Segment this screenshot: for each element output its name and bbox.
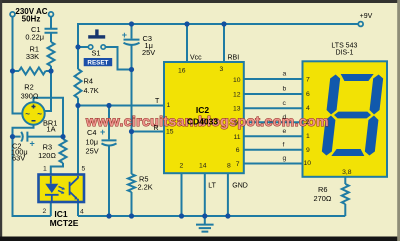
wire IC1 pin2 [50, 203, 52, 216]
wire R6 bottom to rail [344, 204, 346, 216]
svg-text:0.22μ: 0.22μ [25, 33, 44, 42]
resistor R6 270ohm [342, 184, 349, 204]
svg-text:16: 16 [178, 67, 186, 74]
svg-text:c: c [283, 100, 287, 107]
svg-text:13: 13 [233, 106, 241, 113]
wire BR1 minus to left rail [13, 125, 51, 216]
svg-text:RBI: RBI [228, 55, 240, 62]
wire IC1 pin4 to rail [77, 203, 79, 216]
terminal +9V [358, 22, 363, 27]
svg-text:9: 9 [234, 120, 238, 127]
node clock R4/pin5 [75, 103, 80, 108]
svg-text:2: 2 [306, 119, 310, 126]
wire R3 bottom to IC1 pin1 [51, 163, 63, 174]
wire segment f [244, 149, 303, 151]
resistor R5 2.2K [128, 174, 135, 192]
node pin2 rail [179, 213, 184, 218]
resistor R1 33K [48, 42, 55, 66]
wire R5 bottom to ground rail [131, 192, 133, 216]
svg-text:7: 7 [306, 76, 310, 83]
wire BR1 plus output to R3 node [34, 98, 64, 137]
svg-text:a: a [283, 71, 287, 78]
svg-text:14: 14 [199, 163, 207, 170]
wire IC2 pin2 to rail [181, 173, 183, 216]
svg-text:RESET: RESET [87, 59, 108, 66]
svg-text:e: e [283, 128, 287, 135]
resistor R3 120ohm [60, 139, 67, 163]
wire display pin 3,8 to R6 [344, 177, 346, 184]
wire AC left terminal down [13, 17, 23, 114]
capacitor C1 0.22u [45, 29, 58, 33]
wire segment e [244, 135, 303, 137]
svg-text:3,8: 3,8 [342, 169, 352, 176]
svg-text:9: 9 [306, 147, 310, 154]
svg-text:10: 10 [304, 160, 312, 167]
terminal 230V AC left [10, 12, 15, 17]
wire C2 left stub [13, 136, 21, 138]
resistor R4 4.7K [75, 47, 82, 98]
svg-text:7: 7 [236, 161, 240, 168]
LED inside IC1 [45, 184, 58, 193]
wire top +9V rail [78, 24, 359, 45]
svg-text:d: d [283, 114, 287, 121]
wire C4 top [108, 106, 110, 140]
RESET label box [84, 58, 113, 66]
ground symbol [196, 216, 214, 232]
svg-text:1: 1 [306, 133, 310, 140]
photo border frame [0, 0, 400, 3]
svg-text:63V: 63V [12, 154, 25, 163]
svg-text:CD4033: CD4033 [187, 117, 218, 127]
wire C3 bottom reset line [131, 45, 133, 174]
svg-text:~: ~ [37, 110, 42, 119]
IC2 CD4033 box [164, 62, 244, 173]
node R2 left [10, 68, 15, 73]
svg-text:3: 3 [220, 66, 224, 73]
svg-text:120Ω: 120Ω [38, 151, 56, 160]
terminal 230V AC right [49, 12, 54, 17]
wire C1 to R1 [50, 33, 52, 42]
wire reset line to IC2 pin15 [132, 131, 165, 133]
svg-text:2.2K: 2.2K [138, 182, 153, 191]
svg-text:15: 15 [166, 129, 174, 136]
wire clock line to IC2 pin1 [78, 105, 164, 107]
node C4 top [106, 103, 111, 108]
svg-text:25V: 25V [142, 48, 155, 57]
svg-text:IC2: IC2 [196, 105, 210, 115]
wire Vcc pin16 [186, 24, 188, 62]
left isolated rail (mains side) [10, 21, 231, 218]
node C2 left [10, 134, 15, 139]
svg-text:1A: 1A [47, 125, 56, 134]
wire ground rail right side [78, 215, 345, 217]
svg-text:R2: R2 [24, 83, 33, 92]
wire R3 top [62, 137, 64, 139]
svg-text:5: 5 [82, 166, 86, 173]
capacitor C3 1u 25V [124, 40, 140, 45]
svg-text:GND: GND [232, 182, 248, 189]
wire AC right terminal to C1 [50, 17, 52, 28]
node R3/C2/BR1+ [60, 134, 65, 139]
capacitor C4 10u 25V [102, 140, 117, 145]
svg-text:+9V: +9V [360, 13, 373, 20]
wire IC2 pin14 LT to rail [204, 173, 206, 216]
opto-coupler IC1 MCT2E box [39, 175, 85, 203]
node pin8 rail [225, 213, 230, 218]
wire segment a [244, 78, 303, 80]
node C4 rail [106, 213, 111, 218]
svg-text:LT: LT [208, 182, 216, 189]
svg-text:Vcc: Vcc [190, 55, 202, 62]
wire C3 top from rail [131, 24, 133, 39]
svg-text:1: 1 [43, 166, 47, 173]
svg-text:4.7K: 4.7K [84, 86, 99, 95]
pin number labels [43, 66, 352, 216]
node RBI rail [221, 21, 226, 26]
svg-text:b: b [283, 86, 287, 93]
wire C2 right to R3 node [27, 136, 63, 138]
node C3 rail [129, 21, 134, 26]
svg-text:8: 8 [227, 163, 231, 170]
svg-text:1: 1 [167, 102, 171, 109]
svg-text:LTS 543: LTS 543 [331, 42, 357, 49]
svg-text:25V: 25V [86, 147, 99, 156]
svg-text:4: 4 [306, 105, 310, 112]
wire segment c [244, 107, 303, 109]
wire IC1 pin5 to clock node [77, 106, 79, 175]
node reset/S1 [129, 67, 134, 72]
capacitor C2 100u 63V [21, 132, 27, 142]
wire R4 bottom to clock node [77, 98, 79, 106]
node reset/pin15 [129, 129, 134, 134]
phototransistor inside IC1 [70, 176, 78, 201]
light arrows [58, 187, 65, 194]
svg-text:MCT2E: MCT2E [50, 218, 79, 228]
svg-text:C4: C4 [87, 128, 96, 137]
svg-text:T: T [155, 98, 160, 105]
wire segment d [244, 121, 303, 123]
resistor R2 390ohm [13, 68, 52, 75]
bridge rectifier BR1 [22, 102, 44, 124]
node R5 rail [129, 213, 134, 218]
node pin14 rail [202, 213, 207, 218]
switch S1 push button [88, 29, 105, 49]
wire IC2 pin8 GND to rail [227, 173, 229, 216]
svg-text:R: R [154, 125, 159, 132]
seven segment digit 8 [321, 74, 383, 156]
svg-text:12: 12 [233, 92, 241, 99]
wire segment b [244, 93, 303, 95]
wire segment g [244, 163, 303, 165]
svg-text:6: 6 [306, 91, 310, 98]
wire C4 bottom [108, 145, 110, 216]
svg-text:R6: R6 [318, 185, 327, 194]
svg-text:DIS-1: DIS-1 [335, 49, 353, 56]
svg-text:4: 4 [80, 209, 84, 216]
wire RBI pin3 [223, 24, 225, 62]
display DIS-1 LTS543 box [303, 61, 388, 177]
svg-text:2: 2 [43, 208, 47, 215]
wire node down to BR1 right [45, 71, 52, 111]
svg-text:390Ω: 390Ω [21, 92, 39, 101]
wire S1 right to reset line [105, 47, 131, 70]
svg-text:f: f [283, 141, 285, 148]
svg-text:+: + [122, 30, 127, 40]
svg-text:270Ω: 270Ω [314, 194, 332, 203]
svg-text:~: ~ [25, 110, 30, 119]
svg-text:6: 6 [236, 147, 240, 154]
svg-text:11: 11 [233, 134, 240, 141]
wire R1 bottom to node [50, 66, 52, 71]
node Vcc rail [184, 21, 189, 26]
svg-text:S1: S1 [91, 49, 100, 58]
svg-text:R4: R4 [84, 77, 93, 86]
svg-text:33K: 33K [26, 52, 39, 61]
svg-text:2: 2 [180, 163, 184, 170]
node R1/R2 [48, 68, 53, 73]
svg-text:50Hz: 50Hz [22, 14, 41, 23]
svg-text:g: g [283, 155, 287, 162]
svg-text:10μ: 10μ [86, 137, 98, 146]
svg-text:10: 10 [233, 77, 241, 84]
wire S1 left branch [78, 46, 88, 48]
node S1 left [75, 44, 80, 49]
svg-text:+: + [30, 139, 35, 149]
